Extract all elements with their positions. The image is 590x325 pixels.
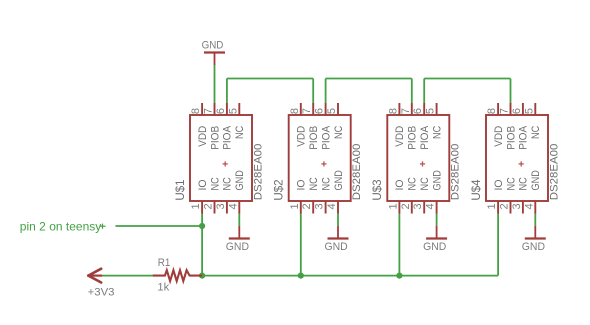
svg-text:U$1: U$1 [173, 179, 187, 201]
svg-text:NC: NC [505, 177, 517, 190]
U$2 pin 2 (NC) [312, 201, 314, 214]
GND bar [229, 237, 250, 239]
svg-text:NC: NC [308, 177, 320, 190]
U$4 pin 5 (NC) [534, 103, 536, 115]
wire +3V3 to R1 [102, 275, 153, 277]
U$4 pin 1 (IO) [497, 201, 499, 214]
GND bar [426, 237, 447, 239]
svg-text:2: 2 [499, 203, 511, 209]
svg-text:GND: GND [333, 170, 345, 191]
supply symbol GND (top) [202, 40, 225, 65]
svg-text:DS28EA00: DS28EA00 [351, 144, 363, 201]
U$4 pin 2 (NC) [510, 201, 512, 214]
U$3 pin 3 (NC) [423, 201, 425, 214]
GND top stem [214, 53, 216, 66]
U$1 pin 8 (VDD) [201, 103, 203, 115]
wire U$1 pin1 vertical [201, 214, 203, 276]
U$2 pin 4 (GND) [337, 201, 339, 214]
svg-text:2: 2 [301, 203, 313, 209]
svg-text:NC: NC [431, 126, 443, 139]
svg-text:3: 3 [215, 203, 227, 209]
U$4 pin 3 (NC) [522, 201, 524, 214]
IC U$2 DS28EA00 [272, 103, 364, 214]
U$2 pin 6 (PIOA) [325, 103, 327, 115]
U$3 pin 4 (GND) [436, 201, 438, 214]
svg-text:8: 8 [486, 108, 498, 114]
svg-text:PIOB: PIOB [505, 126, 517, 150]
svg-text:7: 7 [400, 108, 412, 114]
svg-text:5: 5 [523, 108, 535, 114]
wire U$3 pin4 to GND [436, 214, 438, 226]
U$2 body [289, 115, 351, 201]
U$3 pin 6 (PIOA) [423, 103, 425, 115]
svg-text:1: 1 [289, 203, 301, 209]
svg-text:1: 1 [190, 203, 202, 209]
ground symbol GND under U$3 [423, 226, 447, 253]
wire chain segment 3 left drop [423, 79, 425, 104]
GND stem [238, 226, 240, 239]
wire chain segment 2 left drop [325, 79, 327, 104]
svg-text:PIOA: PIOA [320, 125, 332, 150]
svg-text:7: 7 [301, 108, 313, 114]
U$3 pin 7 (PIOB) [411, 103, 413, 115]
svg-text:6: 6 [314, 108, 326, 114]
svg-text:1: 1 [486, 203, 498, 209]
U$1 pin 4 (GND) [238, 201, 240, 214]
U$4 body [486, 115, 548, 201]
wire chain segment 3 horizontal [424, 78, 510, 80]
svg-text:IO: IO [493, 180, 505, 191]
svg-text:DS28EA00: DS28EA00 [548, 144, 560, 201]
svg-text:GND: GND [522, 241, 545, 253]
svg-text:VDD: VDD [296, 125, 308, 146]
svg-text:PIOA: PIOA [222, 125, 234, 150]
svg-text:U$3: U$3 [370, 179, 384, 201]
svg-text:7: 7 [203, 108, 215, 114]
U$3 pin 5 (NC) [436, 103, 438, 115]
svg-text:1k: 1k [157, 281, 169, 293]
svg-text:VDD: VDD [197, 125, 209, 146]
svg-text:8: 8 [190, 108, 202, 114]
svg-text:5: 5 [326, 108, 338, 114]
svg-text:PIOB: PIOB [308, 126, 320, 150]
U$3 origin cross [420, 163, 425, 165]
svg-text:NC: NC [419, 177, 431, 190]
wire chain segment 1 horizontal [227, 78, 313, 80]
wire U$4 pin4 to GND [534, 214, 536, 226]
svg-text:IO: IO [197, 180, 209, 191]
svg-text:PIOB: PIOB [407, 126, 419, 150]
svg-text:8: 8 [289, 108, 301, 114]
ground symbol GND under U$4 [522, 226, 546, 253]
svg-text:2: 2 [400, 203, 412, 209]
svg-text:6: 6 [412, 108, 424, 114]
supply symbol +3V3 arrow [88, 269, 115, 299]
IC U$4 DS28EA00 [469, 103, 561, 214]
svg-text:5: 5 [227, 108, 239, 114]
junction bus at U$2 [298, 273, 304, 279]
wire chain segment 2 right drop [411, 79, 413, 104]
net label origin cross [100, 225, 106, 227]
U$1 origin cross [223, 163, 228, 165]
svg-text:VDD: VDD [394, 125, 406, 146]
U$1 pin 1 (IO) [201, 201, 203, 214]
wire U$2 pin1 vertical [300, 214, 302, 276]
U$3 pin 8 (VDD) [398, 103, 400, 115]
svg-text:4: 4 [523, 203, 535, 209]
svg-text:GND: GND [431, 170, 443, 191]
svg-text:NC: NC [407, 177, 419, 190]
junction bus at U$3 [396, 273, 402, 279]
IC U$3 DS28EA00 [370, 103, 462, 214]
ground symbol GND under U$2 [325, 226, 349, 253]
svg-text:6: 6 [215, 108, 227, 114]
U$2 origin cross [321, 163, 326, 165]
U$3 body [387, 115, 449, 201]
svg-text:NC: NC [209, 177, 221, 190]
svg-text:NC: NC [518, 177, 530, 190]
svg-text:7: 7 [499, 108, 511, 114]
svg-text:4: 4 [326, 203, 338, 209]
U$1 pin 6 (PIOA) [226, 103, 228, 115]
junction U$1 pin1 / teensy [199, 223, 205, 229]
resistor R1 [153, 257, 203, 294]
svg-text:6: 6 [511, 108, 523, 114]
junction bus at U$1 [199, 273, 205, 279]
U$2 pin 5 (NC) [337, 103, 339, 115]
U$4 pin 8 (VDD) [497, 103, 499, 115]
GND bar [328, 237, 349, 239]
U$1 pin 5 (NC) [238, 103, 240, 115]
GND bar [525, 237, 546, 239]
U$1 pin 3 (NC) [226, 201, 228, 214]
GND stem [337, 226, 339, 239]
U$2 pin 8 (VDD) [300, 103, 302, 115]
svg-text:GND: GND [226, 241, 249, 253]
svg-text:GND: GND [325, 241, 348, 253]
wire chain segment 3 right drop [510, 79, 512, 104]
svg-text:U$4: U$4 [469, 179, 483, 201]
IC U$1 DS28EA00 [173, 103, 264, 214]
svg-text:PIOA: PIOA [518, 125, 530, 150]
U$4 origin cross [519, 163, 524, 165]
U$4 pin 7 (PIOB) [510, 103, 512, 115]
svg-text:GND: GND [234, 170, 246, 191]
svg-text:NC: NC [530, 126, 542, 139]
GND stem [534, 226, 536, 239]
svg-text:+3V3: +3V3 [88, 286, 115, 298]
svg-text:VDD: VDD [493, 125, 505, 146]
wire chain segment 1 left drop [226, 79, 228, 104]
svg-text:U$2: U$2 [272, 179, 286, 201]
wire teensy net horizontal [116, 225, 203, 227]
ground symbol GND under U$1 [226, 226, 250, 253]
svg-text:4: 4 [425, 203, 437, 209]
wire bottom bus [202, 275, 498, 277]
svg-text:IO: IO [296, 180, 308, 191]
wire chain segment 1 right drop [312, 79, 314, 104]
U$2 pin 7 (PIOB) [312, 103, 314, 115]
svg-text:IO: IO [394, 180, 406, 191]
svg-text:PIOA: PIOA [419, 125, 431, 150]
wire U$3 pin1 vertical [398, 214, 400, 276]
wire U$1 pin4 to GND [238, 214, 240, 226]
svg-text:PIOB: PIOB [209, 126, 221, 150]
svg-text:2: 2 [203, 203, 215, 209]
svg-text:5: 5 [425, 108, 437, 114]
U$1 pin 7 (PIOB) [214, 103, 216, 115]
wire chain segment 2 horizontal [326, 78, 412, 80]
GND stem [436, 226, 438, 239]
U$1 pin 2 (NC) [214, 201, 216, 214]
wire U$2 pin4 to GND [337, 214, 339, 226]
svg-text:GND: GND [423, 241, 446, 253]
svg-text:3: 3 [314, 203, 326, 209]
U$4 pin 4 (GND) [534, 201, 536, 214]
svg-text:pin 2 on teensy: pin 2 on teensy [20, 220, 102, 234]
svg-text:DS28EA00: DS28EA00 [252, 144, 264, 201]
svg-text:NC: NC [333, 126, 345, 139]
GND top bar [204, 51, 225, 53]
U$2 pin 1 (IO) [300, 201, 302, 214]
U$3 pin 1 (IO) [398, 201, 400, 214]
svg-text:GND: GND [202, 40, 224, 52]
U$2 pin 3 (NC) [325, 201, 327, 214]
U$3 pin 2 (NC) [411, 201, 413, 214]
svg-text:8: 8 [387, 108, 399, 114]
svg-text:1: 1 [387, 203, 399, 209]
U$1 body [190, 115, 252, 201]
R1 zigzag [153, 270, 203, 281]
svg-text:3: 3 [412, 203, 424, 209]
wire GND to U$1 pin7 [214, 65, 216, 103]
svg-text:NC: NC [222, 177, 234, 190]
wire U$4 pin1 vertical [497, 214, 499, 276]
U$4 pin 6 (PIOA) [522, 103, 524, 115]
svg-text:4: 4 [227, 203, 239, 209]
svg-text:3: 3 [511, 203, 523, 209]
svg-text:NC: NC [234, 126, 246, 139]
svg-text:GND: GND [530, 170, 542, 191]
svg-text:R1: R1 [158, 257, 171, 269]
svg-text:NC: NC [320, 177, 332, 190]
svg-text:DS28EA00: DS28EA00 [450, 144, 462, 201]
